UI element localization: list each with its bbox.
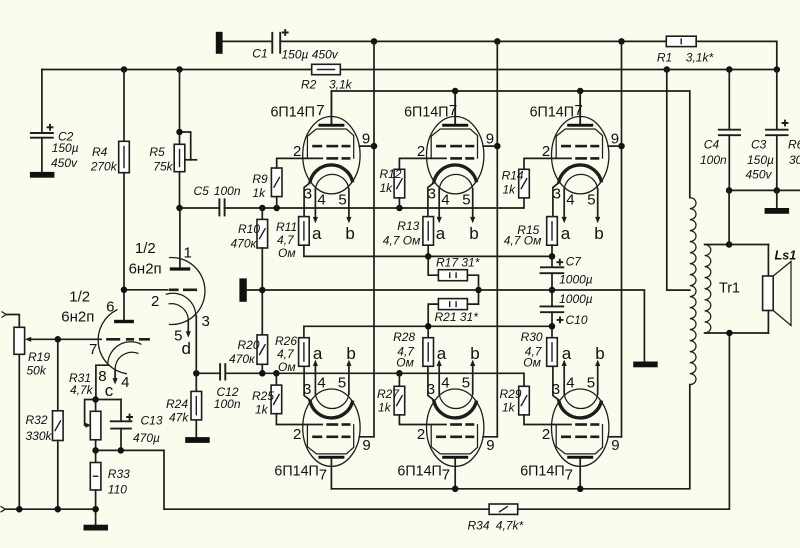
svg-text:6н2п: 6н2п	[129, 260, 162, 277]
R12 labels	[380, 167, 402, 195]
svg-text:9: 9	[362, 130, 370, 147]
svg-text:330k: 330k	[26, 429, 53, 443]
C2 labels	[51, 129, 79, 170]
svg-text:R12: R12	[380, 167, 402, 181]
R30 labels	[521, 330, 543, 369]
wire plate rail bottom tubes	[331, 385, 689, 489]
tube V6 beam plates	[556, 424, 602, 454]
tube V1 pin 3 lead	[304, 183, 310, 217]
junction R5 wiper	[176, 129, 183, 136]
triode A pin 5 arrow d	[186, 320, 191, 338]
wire rail B right part	[340, 69, 777, 71]
svg-text:R20: R20	[238, 338, 260, 352]
svg-text:450v: 450v	[51, 156, 78, 170]
svg-text:R9: R9	[252, 172, 268, 186]
resistor R6 labels (clipped)	[788, 138, 800, 167]
svg-text:R25: R25	[252, 389, 274, 403]
wire input ground rail	[5, 508, 95, 510]
triode A heater arc	[169, 304, 189, 320]
svg-text:d: d	[182, 339, 191, 358]
svg-text:Ls1: Ls1	[775, 249, 797, 263]
triode A plate lead	[179, 208, 181, 267]
svg-text:b: b	[345, 224, 354, 243]
tube V4 plate lead	[330, 459, 332, 489]
svg-text:b: b	[346, 344, 355, 363]
svg-text:1k: 1k	[380, 181, 394, 195]
svg-text:R2: R2	[301, 78, 317, 92]
tube V2 control grid dashes	[450, 157, 474, 160]
junction bottom grid rail / R25	[273, 370, 280, 377]
R32 labels	[26, 413, 53, 443]
resistor R2	[312, 64, 341, 74]
svg-text:4: 4	[566, 191, 574, 208]
wire bar to C1	[223, 40, 272, 42]
tube V6 screen grid (pin 9) dashes	[561, 435, 599, 438]
svg-text:7: 7	[89, 341, 97, 358]
svg-text:R14: R14	[502, 169, 524, 183]
tube V6 cathode (pin 3)	[559, 400, 602, 418]
capacitor C12 plates	[220, 363, 225, 380]
tube V2 cathode (pin 3)	[434, 165, 477, 183]
tube V1 heater pin 5 arrow b	[346, 189, 351, 223]
svg-text:2: 2	[293, 426, 301, 443]
tube V2 labels	[404, 102, 494, 243]
svg-text:c: c	[105, 381, 114, 400]
svg-text:R21 31*: R21 31*	[435, 310, 479, 324]
svg-text:C13: C13	[141, 414, 163, 428]
svg-text:150µ: 150µ	[747, 153, 774, 167]
junction plate rail / V2	[452, 88, 459, 95]
resistor R9	[271, 158, 322, 208]
svg-text:R24: R24	[166, 397, 188, 411]
C7 labels	[559, 255, 593, 287]
junction rail A / V1 V4 screens	[371, 38, 378, 45]
tube V3 6П14П envelope	[552, 117, 609, 194]
svg-text:Tr1: Tr1	[719, 281, 740, 297]
svg-text:b: b	[595, 344, 604, 363]
svg-text:R19: R19	[28, 350, 50, 364]
svg-text:30: 30	[789, 153, 800, 167]
tube V3 heater pin 4 arrow a	[562, 189, 567, 223]
junction node / R33	[92, 447, 99, 454]
svg-text:3: 3	[428, 186, 436, 203]
R29 labels	[500, 387, 522, 414]
svg-text:a: a	[561, 224, 571, 243]
svg-text:4,7: 4,7	[277, 233, 295, 247]
input terminal arrow bottom	[1, 506, 6, 512]
svg-text:100n: 100n	[214, 397, 241, 411]
resistor R11	[299, 217, 552, 257]
svg-text:1000µ: 1000µ	[559, 273, 593, 287]
C1 polarity +	[282, 29, 289, 36]
C4 labels	[700, 138, 727, 167]
tube V2 plate lead	[454, 91, 456, 124]
wire R4 to triode plate node	[123, 173, 125, 320]
tube V3 control grid dashes	[575, 157, 599, 160]
tube V2 screen grid (pin 9) dashes	[436, 145, 474, 148]
junction triode B cathode / R31 / C13	[92, 396, 99, 403]
tube V5 screen grid (pin 9) dashes	[436, 435, 474, 438]
R13 labels	[383, 219, 421, 247]
ground under C3	[765, 190, 790, 213]
tube V5 cathode (pin 3)	[434, 400, 477, 418]
svg-text:5: 5	[338, 374, 346, 391]
junction secondary top / C4 branch	[726, 241, 733, 248]
svg-text:b: b	[469, 224, 478, 243]
C13 labels	[133, 414, 163, 445]
junction rail B / R5	[176, 66, 183, 73]
resistor R25	[271, 373, 322, 424]
tube V4 pin 9 lead	[359, 436, 374, 438]
tube V6 heater arc	[564, 394, 598, 409]
R5 labels	[149, 145, 173, 173]
junction rail B / C4	[726, 66, 733, 73]
junction grid rail / R12	[396, 205, 403, 212]
svg-text:9: 9	[486, 437, 494, 454]
svg-text:5: 5	[462, 374, 470, 391]
R20 labels	[229, 338, 260, 366]
tube V3 pin 9 lead	[608, 145, 621, 147]
capacitor C10	[540, 290, 565, 326]
junction plate rail bottom / V5	[452, 486, 459, 493]
wire triode plate to C5	[180, 207, 220, 209]
wire input to R19	[6, 315, 19, 328]
C10 labels	[559, 292, 593, 327]
svg-text:100n: 100n	[700, 153, 727, 167]
tube V6 heater pin 5 arrow b	[595, 360, 600, 394]
tube V6 labels	[520, 344, 619, 484]
capacitor C1 plates	[272, 32, 280, 54]
tube V1 cathode (pin 3)	[310, 165, 353, 183]
wire top grid rail	[225, 198, 524, 208]
svg-text:R1: R1	[657, 51, 672, 65]
tube V6 pin 3 lead	[553, 366, 559, 400]
resistor R10	[257, 208, 268, 335]
svg-text:3: 3	[304, 186, 312, 203]
svg-text:R34: R34	[468, 519, 490, 533]
triode B pin 8 lead	[96, 365, 108, 399]
resistor R30	[547, 326, 558, 366]
R34 labels	[468, 519, 524, 533]
svg-text:6н2п: 6н2п	[61, 309, 94, 326]
tube V5 heater arc	[439, 394, 473, 409]
wire C4 to secondary top	[728, 190, 730, 244]
tube V2 heater pin 4 arrow a	[437, 189, 442, 223]
R1 labels	[657, 51, 714, 65]
svg-text:C4: C4	[704, 138, 720, 152]
tube V5 heater pin 4 arrow a	[437, 360, 442, 394]
svg-text:R11: R11	[276, 220, 297, 234]
svg-text:9: 9	[611, 437, 619, 454]
svg-text:2: 2	[542, 426, 550, 443]
svg-text:470к: 470к	[231, 237, 258, 251]
svg-text:4: 4	[317, 374, 325, 391]
svg-text:1k: 1k	[378, 401, 392, 415]
triode B (6н2п) envelope	[98, 310, 127, 374]
junction node / C13	[118, 447, 125, 454]
junction ground rail / R19	[16, 506, 23, 513]
svg-text:5: 5	[587, 191, 595, 208]
svg-text:b: b	[594, 224, 603, 243]
ground under C2	[30, 172, 55, 178]
wire screens V3/V6	[621, 41, 623, 436]
svg-text:4: 4	[566, 374, 574, 391]
junction R17/R21 to mid rail	[475, 287, 482, 294]
junction bottom cathode rail / R28 / R21	[425, 323, 432, 330]
tube V5 pin 3 lead	[428, 366, 434, 400]
R10 labels	[231, 222, 261, 251]
resistor R28	[423, 326, 434, 366]
svg-text:a: a	[436, 224, 446, 243]
tube V4 heater arc	[315, 394, 349, 409]
svg-text:6П14П: 6П14П	[404, 104, 448, 120]
svg-text:6: 6	[106, 298, 114, 315]
svg-text:2: 2	[417, 426, 425, 443]
junction mid rail / R10 R20	[259, 287, 266, 294]
R26 labels	[275, 334, 297, 374]
wire V2 plate drop	[454, 91, 456, 124]
svg-text:a: a	[562, 344, 572, 363]
tube V2 6П14П envelope	[427, 117, 484, 194]
svg-text:1k: 1k	[503, 183, 517, 197]
svg-text:R6: R6	[788, 138, 800, 152]
capacitor C4	[718, 70, 741, 191]
resistor R14	[519, 158, 571, 198]
svg-text:50k: 50k	[27, 364, 47, 378]
junction R5 / C5 / triode plate	[176, 205, 183, 212]
tube V1 heater arc	[315, 174, 349, 189]
tube V5 beam plates	[431, 424, 477, 454]
svg-text:7: 7	[574, 102, 582, 119]
tube V5 heater pin 5 arrow b	[470, 360, 475, 394]
tube V6 plate (pin 7) bar	[567, 456, 593, 459]
junction ground rail / R33	[92, 506, 99, 513]
wire bottom grid rail	[225, 373, 524, 386]
junction secondary bottom / feedback	[726, 330, 733, 337]
junction screens V1	[371, 143, 378, 150]
svg-text:Ом: Ом	[278, 360, 296, 374]
svg-text:2: 2	[151, 293, 159, 310]
junction ground rail / R32	[55, 506, 62, 513]
tube V3 plate (pin 7) bar	[567, 124, 593, 127]
trimmer R31	[85, 400, 101, 451]
svg-text:a: a	[312, 224, 322, 243]
tube V3 pin 3 lead	[553, 183, 559, 217]
wire R1 to right corner down to rail B	[696, 41, 777, 69]
wire secondary top to C4 node and speaker	[705, 244, 769, 246]
resistor R29	[519, 386, 571, 424]
junction rail A / V2 V5 screens	[494, 38, 501, 45]
svg-text:7: 7	[319, 466, 327, 483]
tube V1 plate (pin 7) bar	[318, 124, 344, 127]
svg-text:6П14П: 6П14П	[530, 104, 574, 120]
svg-text:R17 31*: R17 31*	[436, 256, 480, 270]
tube V5 control grid dashes	[450, 423, 474, 426]
junction cathode rail / R13 / R17	[425, 253, 432, 260]
svg-text:3: 3	[553, 186, 561, 203]
resistor R12	[394, 158, 446, 208]
svg-text:5: 5	[587, 374, 595, 391]
tube V5 pin 9 lead	[483, 436, 497, 438]
tube V2 heater pin 5 arrow b	[470, 189, 475, 223]
C2 polarity +	[47, 124, 54, 131]
tube V4 control grid dashes	[326, 423, 350, 426]
capacitor C13	[96, 400, 133, 451]
triode A plate (pin 1) bar	[170, 267, 190, 270]
tube V3 labels	[530, 102, 619, 243]
wire R34 to speaker return	[518, 333, 730, 509]
tube V4 labels	[274, 344, 370, 484]
triode A labels	[129, 240, 210, 358]
tube V3 beam plates	[556, 129, 602, 159]
svg-text:450v: 450v	[746, 168, 773, 182]
input terminal arrow top	[2, 312, 7, 318]
speaker Ls1	[763, 245, 791, 334]
svg-text:C10: C10	[566, 313, 588, 327]
svg-text:110: 110	[108, 483, 127, 497]
junction rail B / C3	[774, 66, 781, 73]
resistor R4	[119, 70, 130, 173]
wire R31/C13 bottom node	[96, 449, 164, 451]
tube V6 control grid dashes	[575, 423, 599, 426]
R15 labels	[504, 223, 542, 247]
svg-text:1000µ: 1000µ	[559, 292, 593, 306]
tube V5 labels	[397, 344, 494, 484]
tube V2 heater arc	[439, 174, 473, 189]
wire middle rail	[247, 290, 645, 362]
resistor R21	[428, 290, 478, 326]
svg-text:2: 2	[293, 143, 301, 160]
svg-text:4,7k*: 4,7k*	[496, 519, 524, 533]
tube V5 plate (pin 7) bar	[442, 456, 468, 459]
svg-text:470µ: 470µ	[133, 431, 160, 445]
triode B grid (pin 7) dashes	[106, 338, 150, 341]
svg-text:3,1k: 3,1k	[329, 78, 353, 92]
svg-text:R28: R28	[393, 330, 415, 344]
svg-text:150µ: 150µ	[52, 141, 79, 155]
junction mid rail / C7 C10	[549, 287, 556, 294]
junction bottom grid rail / R20	[259, 370, 266, 377]
triode B cathode arc	[108, 342, 142, 365]
resistor R27	[394, 373, 446, 424]
capacitor C3	[765, 70, 788, 191]
resistor R33	[90, 450, 101, 524]
C3 polarity +	[782, 120, 789, 127]
tube V4 pin 3 lead	[304, 366, 310, 400]
junction R4 / triode B plate / triode A grid	[121, 287, 128, 294]
tube V3 heater arc	[564, 174, 598, 189]
resistor R15	[547, 217, 558, 257]
triode A (6н2п) envelope	[169, 258, 205, 325]
junction ground rail / C4	[726, 187, 733, 194]
svg-text:4: 4	[121, 374, 129, 391]
triode A cathode arc	[166, 293, 196, 315]
svg-text:2: 2	[417, 143, 425, 160]
svg-text:a: a	[313, 344, 323, 363]
tube V4 screen grid (pin 9) dashes	[312, 435, 350, 438]
R28 labels	[393, 330, 415, 369]
svg-text:C3: C3	[751, 138, 767, 152]
svg-text:5: 5	[462, 191, 470, 208]
wire screens V1/V4	[373, 41, 375, 436]
svg-text:75k: 75k	[153, 159, 173, 173]
svg-text:3: 3	[552, 381, 560, 398]
tube V1 beam plates	[307, 129, 353, 159]
resistor R24	[191, 373, 202, 437]
svg-text:9: 9	[611, 130, 619, 147]
svg-text:1k: 1k	[252, 186, 266, 200]
R11 labels	[276, 220, 297, 260]
tube V2 pin 3 lead	[428, 183, 434, 217]
junction ground rail / C3	[774, 187, 781, 194]
tube V1 plate lead	[330, 91, 332, 124]
tube V3 plate lead	[579, 91, 581, 124]
tube V1 pin 9 lead	[359, 145, 374, 147]
R2 labels	[301, 78, 353, 92]
tube V4 6П14П envelope	[303, 389, 360, 466]
R17 labels	[436, 256, 480, 270]
svg-text:4,7: 4,7	[277, 347, 295, 361]
svg-text:100n: 100n	[214, 184, 241, 198]
resistor R17	[428, 256, 478, 290]
svg-text:R30: R30	[521, 330, 543, 344]
resistor R5 (rheostat)	[174, 70, 196, 209]
wire V3 plate drop	[579, 91, 581, 124]
junction bottom grid rail / R27	[396, 370, 403, 377]
junction cathode rail / R15 / C7	[549, 253, 556, 260]
svg-text:R5: R5	[149, 145, 165, 159]
capacitor C2	[30, 70, 54, 172]
wire rail B (screen supply)	[42, 69, 312, 71]
resistor R13	[423, 217, 434, 257]
svg-text:C1: C1	[252, 47, 267, 61]
junction rail B / R4	[121, 66, 128, 73]
resistor R20	[257, 335, 268, 373]
svg-text:7: 7	[565, 466, 573, 483]
triode B pin 4 arrow c	[113, 370, 118, 385]
R19 labels	[27, 350, 51, 377]
svg-text:Ом: Ом	[278, 246, 296, 260]
svg-text:1k: 1k	[255, 403, 269, 417]
wire C4/C3 ground rail	[729, 189, 800, 191]
C3 labels	[746, 138, 775, 182]
svg-text:4: 4	[441, 191, 449, 208]
tube V1 labels	[270, 102, 370, 243]
R19 wiper arrow	[25, 337, 101, 342]
tube V1 control grid dashes	[326, 157, 350, 160]
svg-text:Ом: Ом	[396, 356, 414, 370]
tube V5 6П14П envelope	[427, 389, 484, 466]
Tr1 label	[719, 281, 740, 297]
junction screens V3	[618, 143, 625, 150]
svg-text:470к: 470к	[229, 352, 256, 366]
junction rail A / V3 V6 screens	[618, 38, 625, 45]
svg-text:6П14П: 6П14П	[397, 464, 441, 480]
svg-text:3: 3	[303, 381, 311, 398]
C13 polarity +	[126, 414, 133, 421]
ground under R24	[185, 437, 210, 443]
tube V4 cathode (pin 3)	[310, 400, 353, 418]
tube V2 beam plates	[431, 129, 477, 159]
svg-text:R33: R33	[108, 467, 130, 481]
junction bottom cathode rail / R30 / C10	[549, 323, 556, 330]
transformer Tr1 primary winding	[690, 198, 696, 385]
tube V3 cathode (pin 3)	[559, 165, 602, 183]
svg-text:R4: R4	[92, 145, 108, 159]
triode A grid (pin 2) dashes	[124, 289, 197, 291]
tube V6 heater pin 4 arrow a	[562, 360, 567, 394]
tube V6 pin 9 lead	[608, 436, 621, 438]
